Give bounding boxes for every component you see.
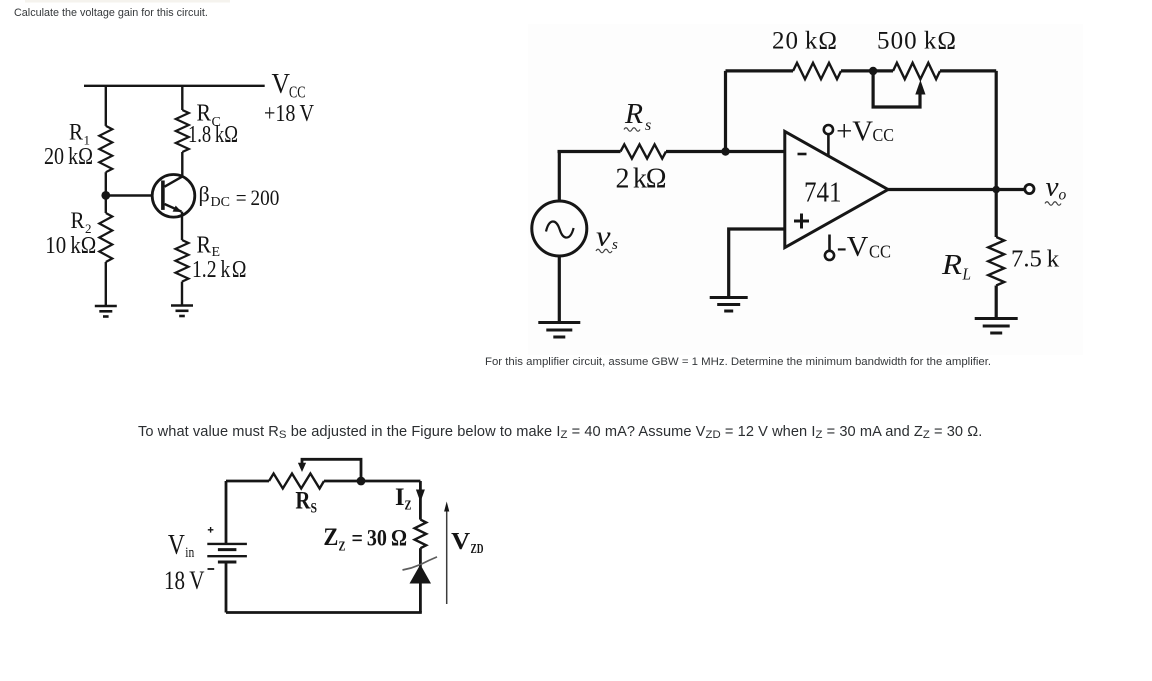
- wire top right: [324, 480, 420, 483]
- arrow potentiometer: [915, 80, 925, 95]
- svg-text:CC: CC: [873, 125, 895, 145]
- label vs: [596, 222, 618, 254]
- label -Vcc: [837, 231, 891, 263]
- svg-text:Z: Z: [339, 540, 346, 555]
- label 10 kOhm: [45, 233, 96, 259]
- svg-text:7.5 k: 7.5 k: [1011, 246, 1060, 273]
- wire collector lower: [165, 152, 183, 187]
- wire rheostat loop: [302, 459, 361, 481]
- svg-text:+V: +V: [836, 116, 873, 148]
- arrow VZD: [444, 502, 449, 605]
- resistor 20k feedback: [793, 63, 841, 79]
- svg-text:R: R: [69, 120, 84, 145]
- svg-text:-V: -V: [837, 231, 869, 263]
- wire source to Rs: [558, 150, 621, 153]
- question text: [138, 424, 982, 440]
- ground non-inverting: [710, 298, 748, 312]
- svg-text:1.2 k Ω: 1.2 k Ω: [192, 257, 247, 283]
- wire output: [888, 188, 1025, 191]
- svg-text:= 200: = 200: [236, 185, 279, 210]
- resistor RE: [176, 240, 189, 282]
- plus input sign: [794, 214, 809, 229]
- label Vcc: [272, 68, 306, 102]
- svg-text:o: o: [1059, 187, 1067, 204]
- label RC: [197, 101, 221, 131]
- resistor R1: [99, 126, 112, 172]
- arrow rheostat: [298, 463, 306, 472]
- wire collector upper: [181, 86, 183, 110]
- wire left bottom: [225, 562, 228, 613]
- label 1.8 kOhm: [188, 122, 238, 148]
- wire emitter lower: [181, 282, 183, 305]
- wire feedback top: [726, 69, 997, 72]
- svg-text:R: R: [295, 488, 311, 515]
- arrow IZ current: [416, 481, 425, 520]
- zener diode D1: [403, 557, 438, 584]
- svg-text:+18 V: +18 V: [264, 101, 315, 127]
- svg-text:β: β: [199, 182, 210, 207]
- svg-text:Z: Z: [405, 499, 412, 514]
- title text: [14, 7, 208, 19]
- svg-text:s: s: [612, 237, 618, 253]
- label 20 kOhm: [44, 144, 93, 170]
- wire left top: [225, 481, 228, 543]
- wire zener bottom: [419, 584, 422, 613]
- wire top left: [226, 480, 269, 483]
- label RE: [197, 233, 221, 261]
- wire feedback right: [995, 71, 998, 190]
- svg-text:1.8 kΩ: 1.8 kΩ: [188, 122, 238, 148]
- svg-text:20 kΩ: 20 kΩ: [44, 144, 93, 170]
- svg-text:v: v: [596, 222, 611, 253]
- wire ZZ to zener: [419, 548, 422, 567]
- wire output to RL: [995, 190, 998, 238]
- label RS: [295, 488, 317, 517]
- svg-text:V: V: [272, 68, 291, 100]
- svg-text:R: R: [197, 233, 212, 259]
- terminal +Vcc: [824, 125, 833, 156]
- label RL: [941, 249, 971, 284]
- label IZ: [395, 484, 412, 514]
- battery Vin: [207, 544, 247, 562]
- source vs circle: [532, 201, 587, 256]
- terminal -Vcc: [825, 235, 834, 261]
- wire base: [106, 194, 153, 196]
- wire bottom rail: [226, 611, 422, 614]
- resistor 500k feedback: [893, 63, 940, 79]
- faint top artifact: [25, 0, 230, 3]
- resistor RL: [988, 237, 1004, 286]
- resistor ZZ: [415, 520, 427, 549]
- wire Rs to op-amp: [666, 150, 785, 153]
- label 500 kOhm: [877, 28, 956, 55]
- node feedback junction: [869, 67, 877, 75]
- node rheostat tap: [357, 477, 366, 486]
- resistor R2: [99, 213, 112, 262]
- svg-text:CC: CC: [869, 242, 891, 262]
- wire emitter upper: [181, 212, 183, 240]
- svg-text:S: S: [311, 501, 318, 517]
- label plus terminal: [208, 527, 214, 533]
- terminal vo: [1025, 184, 1034, 193]
- wire source top: [558, 152, 561, 202]
- label 1.2 k Ohm: [192, 257, 247, 283]
- label minus terminal: [208, 568, 215, 570]
- svg-text:DC: DC: [211, 195, 230, 210]
- caption text: [485, 356, 991, 368]
- svg-text:V: V: [168, 530, 185, 561]
- wire left branch middle: [105, 172, 107, 213]
- label 2 kOhm: [616, 163, 667, 194]
- squiggle under vo: [1045, 202, 1061, 206]
- wire non-inverting input: [729, 229, 785, 296]
- ground right: [171, 306, 193, 317]
- node inverting input: [721, 147, 729, 155]
- label Vin: [168, 530, 195, 561]
- node output junction: [992, 186, 1000, 194]
- resistor Rs: [621, 144, 667, 158]
- ground source: [538, 323, 580, 338]
- svg-text:2 kΩ: 2 kΩ: [616, 163, 667, 194]
- svg-text:10 kΩ: 10 kΩ: [45, 233, 96, 259]
- wire source bottom: [558, 256, 561, 322]
- label 741: [804, 177, 842, 208]
- ground RL: [975, 319, 1018, 334]
- minus input sign: [798, 153, 807, 156]
- svg-text:20 kΩ: 20 kΩ: [772, 28, 837, 55]
- svg-text:= 30 Ω: = 30 Ω: [352, 526, 408, 551]
- label 20 kOhm: [772, 28, 837, 55]
- svg-text:ZD: ZD: [471, 541, 484, 556]
- svg-text:L: L: [962, 265, 971, 284]
- wire inverting input feed: [724, 71, 727, 152]
- wire Vcc rail: [84, 85, 265, 87]
- op-amp U1 741: [785, 132, 888, 248]
- label ZZ = 30 Ohm: [323, 524, 407, 555]
- label vo: [1046, 172, 1067, 204]
- wire left branch upper: [105, 86, 107, 126]
- svg-text:CC: CC: [289, 83, 306, 102]
- wire potentiometer tap: [873, 71, 920, 107]
- svg-text:R: R: [941, 249, 962, 281]
- resistor RS rheostat: [269, 474, 324, 489]
- wire left branch lower: [105, 262, 107, 306]
- svg-text:Z: Z: [323, 524, 338, 551]
- wire RL bottom: [995, 286, 998, 319]
- svg-text:18 V: 18 V: [164, 566, 205, 595]
- node base junction: [101, 191, 110, 200]
- scan background: [528, 24, 1083, 355]
- label VZD: [451, 529, 484, 556]
- svg-text:R: R: [71, 208, 86, 233]
- svg-text:741: 741: [804, 177, 842, 208]
- label +18 V: [264, 101, 315, 127]
- squiggle under vs: [596, 249, 612, 253]
- label +Vcc: [836, 116, 894, 148]
- ground left: [95, 306, 117, 317]
- transistor Q1: [152, 175, 195, 218]
- svg-text:500 kΩ: 500 kΩ: [877, 28, 956, 55]
- resistor RC: [176, 110, 189, 152]
- svg-text:v: v: [1046, 172, 1059, 202]
- svg-text:R: R: [624, 99, 643, 130]
- label 18 V: [164, 566, 205, 595]
- svg-text:s: s: [645, 117, 651, 134]
- label Rs: [624, 99, 651, 134]
- squiggle under Rs: [624, 128, 640, 132]
- svg-text:in: in: [185, 545, 194, 561]
- svg-text:I: I: [395, 484, 405, 511]
- label 7.5 k: [1011, 246, 1060, 273]
- label R1: [69, 120, 90, 148]
- svg-text:V: V: [451, 529, 471, 555]
- label R2: [71, 208, 92, 236]
- label beta_DC = 200: [199, 182, 280, 211]
